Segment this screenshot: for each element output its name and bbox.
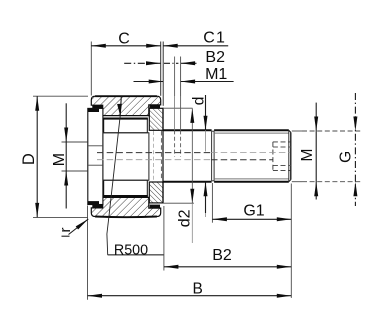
svg-text:M: M xyxy=(51,153,68,166)
dimension C1 xyxy=(163,30,228,106)
flange bottom face extension xyxy=(163,202,194,204)
stud raceway top xyxy=(103,132,149,134)
svg-text:R500: R500 xyxy=(114,243,148,259)
svg-text:G: G xyxy=(338,151,355,163)
dimension M right xyxy=(299,103,318,200)
svg-text:B2: B2 xyxy=(212,247,232,264)
svg-text:C: C xyxy=(118,30,130,47)
thread relief groove xyxy=(212,131,215,181)
dimension C xyxy=(91,30,160,96)
axial hole line lower xyxy=(97,159,273,161)
svg-text:M1: M1 xyxy=(205,66,227,83)
seal bottom-left xyxy=(92,204,103,208)
thread root bottom xyxy=(214,178,289,180)
end washer xyxy=(88,108,103,204)
radius leader r xyxy=(57,219,88,236)
dimension B2 bottom xyxy=(164,206,291,271)
stud flange bottom xyxy=(149,182,163,203)
flange right face xyxy=(162,108,164,203)
shaft top line xyxy=(163,129,212,131)
axial hole line upper xyxy=(97,152,290,154)
needle roller top xyxy=(103,118,148,133)
ring OD top edge xyxy=(95,95,157,97)
seal bottom-right xyxy=(150,205,160,209)
hex socket hidden lines xyxy=(273,142,291,171)
svg-text:d: d xyxy=(190,97,207,106)
svg-text:B2: B2 xyxy=(205,49,225,66)
dimension M1 xyxy=(134,57,234,131)
svg-text:D: D xyxy=(20,153,38,165)
dimension G xyxy=(338,93,358,206)
shaft end chamfer xyxy=(289,130,291,181)
svg-text:C1: C1 xyxy=(203,30,226,47)
thread crest top xyxy=(214,129,289,131)
svg-text:G1: G1 xyxy=(243,203,264,220)
stud flange top xyxy=(149,108,163,130)
ring OD bottom edge xyxy=(95,216,157,219)
svg-text:M: M xyxy=(299,149,316,162)
dimension B2 top xyxy=(124,49,225,66)
dimension M left xyxy=(51,103,88,208)
stud raceway bottom xyxy=(103,179,149,181)
outer ring bottom section xyxy=(91,197,160,217)
outer ring top section xyxy=(91,96,160,115)
shaft bottom line xyxy=(163,181,212,183)
dimension G1 xyxy=(212,183,291,298)
crown radius leader R500 xyxy=(107,96,164,258)
svg-text:r: r xyxy=(57,228,74,233)
svg-text:d2: d2 xyxy=(176,209,193,227)
dimension B xyxy=(88,206,292,300)
seal top-right xyxy=(150,105,160,109)
dimension d xyxy=(190,95,207,218)
svg-text:B: B xyxy=(193,280,203,297)
shaft crest extension lines xyxy=(292,131,361,182)
shaft end face xyxy=(290,132,292,179)
flange top face extension xyxy=(163,107,193,109)
radial hole hidden lines xyxy=(153,130,180,180)
thread crest bottom xyxy=(214,181,289,183)
dimension D xyxy=(20,96,88,217)
thread root top xyxy=(214,132,289,134)
dimension d2 xyxy=(176,108,194,243)
needle roller bottom xyxy=(103,180,148,196)
stud shoulder step xyxy=(148,133,150,180)
seal top-left xyxy=(92,105,103,109)
